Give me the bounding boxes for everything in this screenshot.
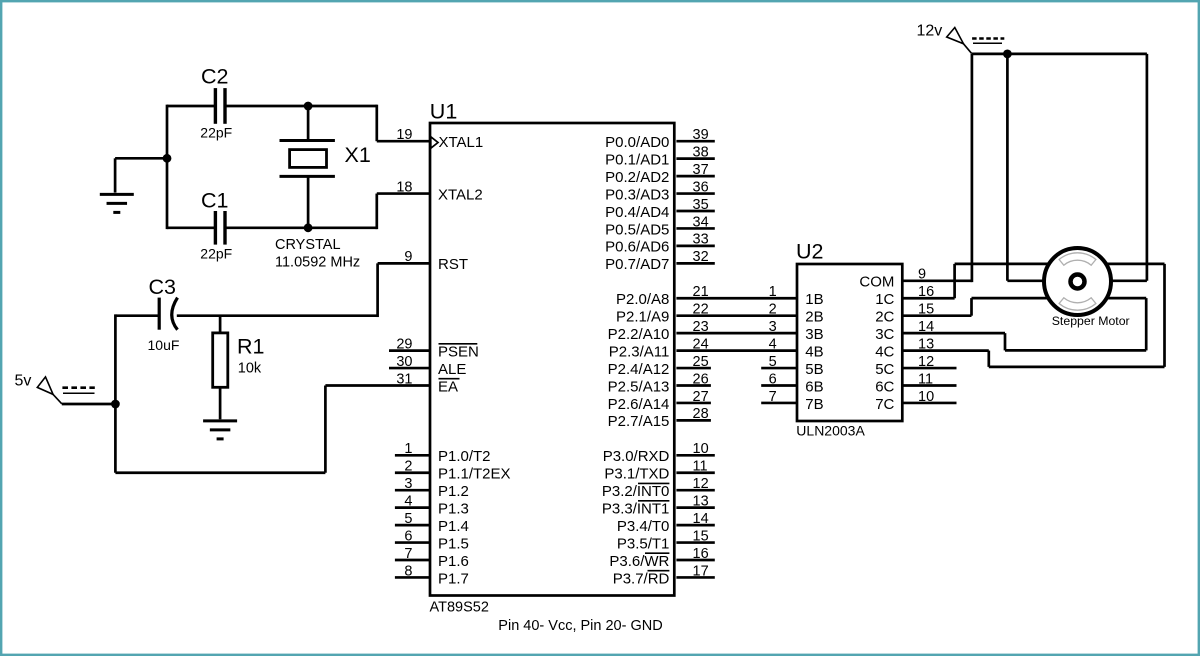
- svg-text:EA: EA: [438, 378, 458, 395]
- svg-text:XTAL1: XTAL1: [439, 134, 484, 151]
- U2 pin 6 6B: [761, 371, 823, 395]
- motor M1 stepper motor: [1044, 248, 1130, 328]
- svg-text:P1.6: P1.6: [438, 553, 469, 570]
- svg-text:CRYSTAL: CRYSTAL: [275, 237, 341, 253]
- U1 pin 32 P0.7/AD7: [605, 249, 715, 273]
- U2 pin 10 7C: [875, 389, 956, 413]
- svg-text:10: 10: [918, 389, 934, 405]
- U2 pin 14 3C: [875, 319, 1005, 343]
- U1 pin 34 P0.5/AD5: [605, 214, 715, 238]
- svg-text:17: 17: [693, 563, 709, 579]
- resistor R1: [213, 316, 265, 420]
- U1 pin 12 P3.2/INT0: [602, 476, 715, 500]
- U1 pin 23 P2.2/A10: [608, 319, 797, 343]
- svg-text:3: 3: [404, 476, 412, 492]
- U1 pin 4 P1.3: [395, 493, 469, 517]
- U1 pin 30 ALE: [389, 354, 466, 378]
- U1 pin 27 P2.6/A14: [608, 389, 711, 413]
- svg-text:AT89S52: AT89S52: [430, 599, 489, 615]
- svg-text:COM: COM: [859, 274, 894, 291]
- wire net XTAL1 (C2 right plate / X1 top / U1 pin19): [225, 102, 430, 142]
- U1 pin 14 P3.4/T0: [617, 511, 715, 535]
- U1 pin 13 P3.3/INT1: [602, 493, 715, 517]
- svg-text:P3.2/INT0: P3.2/INT0: [602, 483, 670, 500]
- svg-text:P2.2/A10: P2.2/A10: [608, 326, 670, 343]
- IC U2 ULN2003A: [796, 240, 902, 439]
- U1 pin 5 P1.4: [395, 511, 469, 535]
- U1 pin 26 P2.5/A13: [608, 371, 711, 395]
- svg-text:P1.1/T2EX: P1.1/T2EX: [438, 466, 511, 483]
- U1 pin 25 P2.4/A12: [608, 354, 711, 378]
- U2 pin 7 7B: [761, 389, 823, 413]
- svg-text:12: 12: [918, 354, 934, 370]
- U2 pin 2 2B: [769, 302, 824, 326]
- svg-text:13: 13: [693, 493, 709, 509]
- svg-text:14: 14: [918, 319, 934, 335]
- svg-text:ALE: ALE: [438, 361, 466, 378]
- svg-text:P1.4: P1.4: [438, 518, 469, 535]
- svg-text:3: 3: [769, 319, 777, 335]
- svg-text:P3.5/T1: P3.5/T1: [617, 535, 670, 552]
- svg-text:22pF: 22pF: [200, 124, 232, 140]
- svg-text:33: 33: [693, 232, 709, 248]
- svg-text:X1: X1: [345, 143, 371, 167]
- svg-text:P2.3/A11: P2.3/A11: [609, 343, 670, 360]
- svg-text:16: 16: [918, 284, 934, 300]
- svg-text:11: 11: [918, 371, 933, 387]
- svg-text:P3.3/INT1: P3.3/INT1: [602, 500, 670, 517]
- svg-text:10: 10: [693, 441, 709, 457]
- svg-text:22pF: 22pF: [200, 245, 232, 261]
- svg-text:P0.3/AD3: P0.3/AD3: [605, 186, 669, 203]
- wire 1C riser: [953, 264, 956, 298]
- U1 pin 9 RST: [404, 249, 468, 273]
- wire net XTAL2 (C1 right plate / X1 bottom / U1 pin18): [225, 176, 430, 232]
- ground symbol (crystal): [100, 194, 134, 212]
- svg-text:2B: 2B: [805, 309, 823, 326]
- svg-text:7: 7: [404, 546, 412, 562]
- svg-text:XTAL2: XTAL2: [438, 186, 483, 203]
- svg-text:16: 16: [693, 546, 709, 562]
- U1 pin 39 P0.0/AD0: [605, 127, 715, 151]
- svg-text:11.0592 MHz: 11.0592 MHz: [275, 254, 360, 270]
- svg-text:C3: C3: [149, 275, 177, 299]
- svg-text:U1: U1: [430, 100, 457, 124]
- svg-text:P1.0/T2: P1.0/T2: [438, 448, 491, 465]
- wire net RST (C3 right plate to U1 pin9): [177, 263, 430, 317]
- wire 4C loop (right vertical, bottom run, riser): [989, 264, 1165, 367]
- svg-text:5: 5: [404, 511, 412, 527]
- U1 pin 38 P0.1/AD1: [605, 144, 715, 168]
- wire 3C loop (right vertical, jog run): [1005, 298, 1146, 350]
- U1 pin 37 P0.2/AD2: [605, 162, 715, 186]
- svg-text:15: 15: [693, 528, 709, 544]
- power symbol 5v: [15, 373, 95, 404]
- svg-text:27: 27: [693, 389, 709, 405]
- crystal X1: [280, 141, 371, 177]
- svg-text:21: 21: [693, 284, 709, 300]
- svg-text:P0.1/AD1: P0.1/AD1: [605, 151, 669, 168]
- U2 pin 11 6C: [875, 371, 956, 395]
- U1 pin 1 P1.0/T2: [395, 441, 491, 465]
- svg-text:8: 8: [404, 563, 412, 579]
- svg-text:P3.4/T0: P3.4/T0: [617, 518, 670, 535]
- svg-text:P0.5/AD5: P0.5/AD5: [605, 221, 669, 238]
- svg-text:4B: 4B: [805, 343, 823, 360]
- svg-text:9: 9: [404, 249, 412, 265]
- svg-text:P1.7: P1.7: [438, 570, 469, 587]
- svg-text:30: 30: [396, 354, 412, 370]
- svg-text:7C: 7C: [875, 396, 894, 413]
- svg-text:7: 7: [769, 389, 777, 405]
- svg-text:6: 6: [769, 371, 777, 387]
- svg-text:1B: 1B: [805, 291, 823, 308]
- U1 pin 6 P1.5: [395, 528, 469, 552]
- U1 pin 15 P3.5/T1: [617, 528, 715, 552]
- svg-text:C2: C2: [201, 65, 228, 89]
- svg-text:13: 13: [918, 336, 934, 352]
- svg-text:Pin 40- Vcc, Pin 20- GND: Pin 40- Vcc, Pin 20- GND: [498, 618, 662, 634]
- svg-text:1C: 1C: [875, 291, 894, 308]
- svg-text:2: 2: [404, 459, 412, 475]
- svg-text:5: 5: [769, 354, 777, 370]
- svg-text:4: 4: [769, 336, 777, 352]
- svg-text:24: 24: [693, 336, 709, 352]
- svg-text:35: 35: [693, 197, 709, 213]
- capacitor C3 10uF (electrolytic): [148, 275, 180, 353]
- U1 pin 16 P3.6/WR: [609, 546, 714, 570]
- wire COM riser to 12v: [971, 54, 974, 282]
- svg-text:P2.0/A8: P2.0/A8: [616, 291, 669, 308]
- power symbol 12v: [917, 23, 1005, 54]
- U1 pin 24 P2.3/A11: [609, 336, 797, 360]
- wire upper motor run (1C / 4C, passes under motor): [955, 263, 1165, 266]
- svg-text:29: 29: [396, 336, 412, 352]
- U2 pin 13 4C: [875, 336, 989, 360]
- capacitor C1: [200, 189, 232, 262]
- U1 pin 2 P1.1/T2EX: [395, 459, 511, 483]
- svg-text:C1: C1: [201, 189, 228, 213]
- svg-text:1: 1: [769, 284, 777, 300]
- svg-text:25: 25: [693, 354, 709, 370]
- svg-text:19: 19: [396, 127, 412, 143]
- svg-text:4C: 4C: [875, 343, 894, 360]
- svg-text:14: 14: [693, 511, 709, 527]
- svg-text:3C: 3C: [875, 326, 894, 343]
- U2 pin 4 4B: [769, 336, 824, 360]
- svg-text:3B: 3B: [805, 326, 823, 343]
- wire 12v right rail to motor right lead: [1077, 54, 1147, 281]
- U1 pin 8 P1.7: [395, 563, 469, 587]
- U1 pin 28 P2.7/A15: [608, 406, 711, 430]
- svg-text:R1: R1: [237, 335, 264, 359]
- svg-text:34: 34: [693, 214, 709, 230]
- wire 2C riser: [970, 298, 973, 316]
- svg-text:5v: 5v: [15, 373, 32, 390]
- svg-text:P0.6/AD6: P0.6/AD6: [605, 239, 669, 256]
- U2 pin 3 3B: [769, 319, 824, 343]
- U1 pin 21 P2.0/A8: [616, 284, 797, 308]
- wire lower motor run (2C / 3C, passes under motor): [972, 297, 1147, 300]
- svg-text:2: 2: [769, 302, 777, 318]
- wire 12v to motor left lead: [1007, 54, 1077, 281]
- svg-text:23: 23: [693, 319, 709, 335]
- U2 pin 12 5C: [875, 354, 956, 378]
- U1 pin 36 P0.3/AD3: [605, 179, 715, 203]
- svg-text:P2.7/A15: P2.7/A15: [608, 413, 670, 430]
- svg-text:5C: 5C: [875, 361, 894, 378]
- svg-text:P2.4/A12: P2.4/A12: [608, 361, 670, 378]
- svg-text:6C: 6C: [875, 378, 894, 395]
- U1 pin 22 P2.1/A9: [616, 302, 797, 326]
- svg-text:39: 39: [693, 127, 709, 143]
- svg-text:32: 32: [693, 249, 709, 265]
- svg-text:P1.2: P1.2: [438, 483, 469, 500]
- svg-text:38: 38: [693, 144, 709, 160]
- svg-text:P2.5/A13: P2.5/A13: [608, 378, 670, 395]
- U2 pin 1 1B: [769, 284, 824, 308]
- svg-text:P3.0/RXD: P3.0/RXD: [603, 448, 670, 465]
- svg-text:U2: U2: [796, 240, 823, 264]
- capacitor C2: [200, 65, 232, 141]
- value label CRYSTAL 11.0592 MHz: [275, 237, 360, 270]
- U1 pin 33 P0.6/AD6: [605, 232, 715, 256]
- wire crystal ground net (C2/C1 left plates): [115, 105, 215, 229]
- U1 pin 31 EA: [396, 371, 459, 395]
- U1 pin 10 P3.0/RXD: [603, 441, 715, 465]
- U1 pin 18 XTAL2: [396, 179, 482, 203]
- svg-text:P2.6/A14: P2.6/A14: [608, 396, 670, 413]
- svg-text:6: 6: [404, 528, 412, 544]
- svg-text:9: 9: [918, 267, 926, 283]
- U1 pin 29 PSEN: [389, 336, 479, 360]
- U2 pin 15 2C: [875, 302, 971, 326]
- wire net 5v (C3 left plate, 5v arrow, EA pin31): [62, 314, 430, 472]
- svg-text:12: 12: [693, 476, 709, 492]
- svg-text:11: 11: [693, 459, 708, 475]
- svg-text:5B: 5B: [805, 361, 823, 378]
- svg-text:P1.5: P1.5: [438, 535, 469, 552]
- wire 12v top rail: [972, 50, 1147, 59]
- svg-text:P1.3: P1.3: [438, 500, 469, 517]
- svg-text:18: 18: [396, 179, 412, 195]
- svg-text:22: 22: [693, 302, 709, 318]
- svg-text:P0.2/AD2: P0.2/AD2: [605, 169, 669, 186]
- U1 pin 17 P3.7/RD: [613, 563, 715, 587]
- svg-text:10uF: 10uF: [148, 337, 180, 353]
- svg-text:36: 36: [693, 179, 709, 195]
- IC U1 AT89S52: [430, 100, 675, 616]
- svg-text:15: 15: [918, 302, 934, 318]
- U1 pin 7 P1.6: [395, 546, 469, 570]
- U1 pin 3 P1.2: [395, 476, 469, 500]
- svg-text:P3.6/WR: P3.6/WR: [609, 553, 669, 570]
- svg-text:P3.1/TXD: P3.1/TXD: [604, 466, 669, 483]
- svg-text:Stepper Motor: Stepper Motor: [1052, 314, 1130, 328]
- svg-text:RST: RST: [438, 256, 468, 273]
- U1 pin 19 XTAL1: [396, 127, 483, 151]
- svg-text:P3.7/RD: P3.7/RD: [613, 570, 670, 587]
- svg-text:2C: 2C: [875, 309, 894, 326]
- svg-text:28: 28: [693, 406, 709, 422]
- U2 pin 9 COM: [859, 267, 972, 291]
- svg-text:P0.0/AD0: P0.0/AD0: [605, 134, 669, 151]
- svg-text:6B: 6B: [805, 378, 823, 395]
- svg-text:31: 31: [396, 371, 412, 387]
- svg-text:PSEN: PSEN: [438, 343, 479, 360]
- ground symbol (R1): [203, 421, 237, 439]
- U2 pin 5 5B: [761, 354, 823, 378]
- svg-text:1: 1: [404, 441, 412, 457]
- svg-text:P2.1/A9: P2.1/A9: [616, 309, 669, 326]
- svg-text:4: 4: [404, 493, 412, 509]
- svg-text:37: 37: [693, 162, 709, 178]
- U1 pin 35 P0.4/AD4: [605, 197, 715, 221]
- svg-text:12v: 12v: [917, 23, 943, 40]
- svg-text:ULN2003A: ULN2003A: [796, 423, 865, 439]
- svg-text:7B: 7B: [805, 396, 823, 413]
- svg-text:26: 26: [693, 371, 709, 387]
- U2 pin 16 1C: [875, 284, 954, 308]
- svg-text:10k: 10k: [238, 361, 262, 377]
- svg-text:P0.7/AD7: P0.7/AD7: [605, 256, 669, 273]
- U1 pin 11 P3.1/TXD: [604, 459, 714, 483]
- svg-text:P0.4/AD4: P0.4/AD4: [605, 204, 669, 221]
